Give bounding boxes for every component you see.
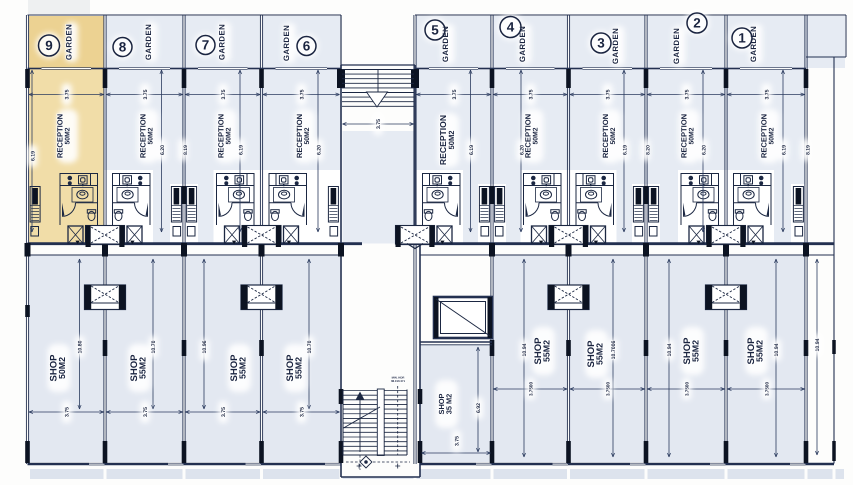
svg-text:10.94: 10.94 [815,338,821,351]
svg-text:50M2: 50M2 [226,127,233,144]
svg-text:10.80: 10.80 [78,340,84,353]
svg-text:3: 3 [597,36,605,51]
svg-text:5: 5 [431,23,439,38]
svg-text:GARDEN: GARDEN [218,24,227,60]
svg-text:50M2: 50M2 [304,127,311,144]
svg-text:55M2: 55M2 [138,357,148,379]
svg-text:RECEPTION: RECEPTION [295,114,304,158]
svg-text:RECEPTION: RECEPTION [139,114,148,158]
svg-text:10.7006: 10.7006 [611,341,617,360]
svg-text:3.75: 3.75 [454,436,460,446]
svg-text:08.150.371: 08.150.371 [391,379,405,383]
svg-text:10.70: 10.70 [307,340,313,353]
svg-text:8.20: 8.20 [645,145,651,155]
svg-text:55M2: 55M2 [238,357,248,379]
svg-text:3.7500: 3.7500 [606,382,611,396]
svg-text:3.75: 3.75 [764,89,770,99]
svg-text:10.96: 10.96 [202,340,208,353]
svg-text:6.19: 6.19 [622,145,628,155]
svg-text:7: 7 [202,38,210,53]
svg-text:6.20: 6.20 [160,145,166,155]
svg-text:50M2: 50M2 [57,357,67,379]
svg-text:3.75: 3.75 [529,89,535,99]
svg-text:3.75: 3.75 [65,407,71,417]
svg-text:6.20: 6.20 [701,145,707,155]
svg-text:3.75: 3.75 [452,89,458,99]
svg-text:3.75: 3.75 [300,89,306,99]
svg-text:55M2: 55M2 [691,340,701,362]
svg-text:6.19: 6.19 [30,151,36,161]
svg-text:GARDEN: GARDEN [65,24,74,60]
svg-text:50M2: 50M2 [689,127,696,144]
svg-text:2: 2 [693,16,701,31]
svg-text:3.75: 3.75 [143,407,149,417]
svg-text:6.19: 6.19 [469,145,475,155]
svg-text:3.75: 3.75 [606,89,612,99]
svg-text:RECEPTION: RECEPTION [524,114,533,158]
svg-text:RECEPTION: RECEPTION [56,114,65,158]
svg-text:55M2: 55M2 [294,357,304,379]
svg-text:8.19: 8.19 [805,145,811,155]
svg-text:50M2: 50M2 [533,127,540,144]
svg-text:6.92: 6.92 [476,403,482,413]
svg-text:6.19: 6.19 [238,145,244,155]
svg-text:GARDEN: GARDEN [282,25,291,61]
svg-text:GARDEN: GARDEN [672,28,681,64]
svg-text:3.7500: 3.7500 [764,382,769,396]
svg-text:10.70: 10.70 [151,340,157,353]
svg-text:50M2: 50M2 [769,127,776,144]
svg-text:RECEPTION: RECEPTION [680,114,689,158]
svg-text:RECEPTION: RECEPTION [760,114,769,158]
svg-text:RECEPTION: RECEPTION [601,114,610,158]
svg-text:3.7500: 3.7500 [529,382,534,396]
svg-text:10.94: 10.94 [667,343,673,356]
svg-text:10.94: 10.94 [774,343,780,356]
svg-text:6.20: 6.20 [316,145,322,155]
svg-text:3.75: 3.75 [65,89,71,99]
svg-text:3.75: 3.75 [143,89,149,99]
svg-text:GARDEN: GARDEN [144,24,153,60]
svg-text:50M2: 50M2 [148,127,155,144]
svg-text:6: 6 [303,39,311,54]
svg-text:3.75: 3.75 [300,407,306,417]
svg-text:55M2: 55M2 [595,343,605,365]
svg-text:3.75: 3.75 [376,119,382,129]
svg-text:50M2: 50M2 [65,127,72,144]
svg-text:10.94: 10.94 [522,343,528,356]
svg-text:3.7500: 3.7500 [684,382,689,396]
svg-text:3.75: 3.75 [221,407,227,417]
svg-text:8.19: 8.19 [183,145,189,155]
svg-text:4: 4 [507,20,515,35]
svg-text:8: 8 [119,40,127,55]
svg-text:3.75: 3.75 [221,89,227,99]
svg-text:RECEPTION: RECEPTION [217,114,226,158]
svg-text:55M2: 55M2 [542,340,552,362]
svg-text:50M2: 50M2 [610,127,617,144]
svg-text:6.19: 6.19 [781,145,787,155]
svg-text:GARDEN: GARDEN [611,28,620,64]
svg-text:35 M2: 35 M2 [445,394,454,415]
svg-text:1: 1 [738,31,746,46]
svg-text:9: 9 [45,38,53,53]
svg-text:55M2: 55M2 [755,340,765,362]
svg-text:3.75: 3.75 [684,89,690,99]
svg-text:50M2: 50M2 [447,131,456,150]
